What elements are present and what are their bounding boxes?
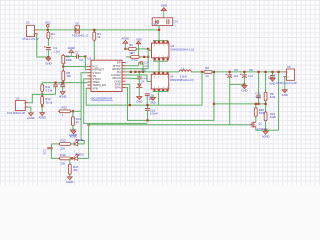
- LED LED2: [74, 153, 84, 161]
- connector U1 (thermistor): [7, 97, 28, 115]
- ground AGND below R17: [66, 176, 74, 184]
- svg-text:LED1: LED1: [77, 138, 84, 142]
- svg-text:36k: 36k: [67, 74, 72, 78]
- wire rail to C7: [272, 72, 274, 76]
- ground AGND below R12: [38, 112, 46, 120]
- wire C3 to PH rail: [141, 63, 144, 72]
- svg-text:AGND: AGND: [68, 46, 76, 50]
- junction SRP sense / R8 left: [201, 71, 203, 73]
- svg-text:U3: U3: [88, 56, 92, 60]
- junction R13 / R14: [72, 110, 74, 112]
- wire L1 to R8: [191, 71, 204, 73]
- wire rail to C6: [243, 72, 245, 75]
- junction gate column top: [147, 48, 149, 50]
- wire node to R10: [255, 104, 257, 108]
- wire C21 down: [258, 98, 260, 104]
- wire C12 to TS node rail: [55, 87, 57, 95]
- wire R3 top to C2: [63, 56, 76, 58]
- wire C6 down: [243, 77, 245, 85]
- svg-text:C6: C6: [249, 68, 253, 72]
- svg-text:100nF: 100nF: [150, 112, 158, 116]
- svg-text:R15: R15: [61, 139, 67, 143]
- wire R17 to AGND: [69, 174, 71, 176]
- wire R7 left: [126, 56, 129, 58]
- capacitor C5: [225, 68, 238, 77]
- ground AGND top middle: [122, 36, 130, 49]
- wire battery positive rail: [212, 71, 283, 73]
- wire input rail left segment: [38, 29, 75, 31]
- wire VREF to R11: [41, 83, 43, 85]
- diode D5 with capacitor C14 snubber: [152, 18, 178, 26]
- svg-text:LED2: LED2: [77, 153, 84, 157]
- wire ground return long: [89, 84, 230, 124]
- svg-text:600k: 600k: [259, 111, 266, 115]
- svg-text:5.9k: 5.9k: [270, 95, 276, 99]
- junction C5 top: [229, 71, 231, 73]
- wire R5 to VREF net: [62, 81, 64, 83]
- wire LODRV to U6 gate: [126, 75, 152, 82]
- svg-text:30.1k: 30.1k: [45, 100, 52, 104]
- svg-text:1N48: 1N48: [142, 78, 148, 80]
- wire R9 to R19: [265, 101, 267, 112]
- wire Q1 source to PH rail: [158, 61, 160, 72]
- resistor R2: [47, 31, 55, 40]
- ground AGND bottom right: [262, 130, 270, 138]
- wire Q2 source rail: [153, 91, 169, 93]
- wire C5 down: [229, 77, 231, 85]
- ground AGND above LED1: [70, 128, 78, 138]
- capacitor C12: [53, 85, 58, 87]
- ground GND above snubber: [161, 4, 167, 18]
- connector U5 (battery): [276, 65, 297, 85]
- wire LED2 riser: [88, 123, 90, 158]
- wire VFB run: [86, 88, 130, 105]
- svg-text:499k: 499k: [66, 58, 73, 62]
- svg-text:U4: U4: [171, 44, 175, 48]
- ground GND below U5: [282, 89, 288, 97]
- wire SRN sense run: [126, 72, 214, 121]
- wire to R17: [69, 158, 71, 164]
- wire LED1 cathode: [78, 143, 85, 145]
- svg-text:20k: 20k: [61, 146, 66, 150]
- resistor R10: [254, 106, 265, 117]
- ground AGND below U1: [27, 112, 35, 120]
- junction C13 top: [62, 82, 64, 84]
- wire C16 bottom: [147, 110, 149, 120]
- resistor R5: [62, 70, 72, 83]
- resistor R17: [68, 163, 78, 176]
- svg-text:AGND: AGND: [27, 116, 35, 120]
- svg-text:XT30(2+2)-8.9-2P: XT30(2+2)-8.9-2P: [276, 81, 297, 85]
- wire input rail to Q1 drain: [80, 29, 160, 31]
- junction C1 / U2 ground node: [47, 56, 49, 58]
- wire VREF to C12: [55, 83, 57, 85]
- resistor R11: [41, 83, 53, 93]
- svg-text:AGND: AGND: [66, 180, 74, 184]
- svg-text:20k: 20k: [73, 168, 78, 172]
- svg-text:10uf: 10uf: [233, 75, 238, 78]
- wire VREF net horizontal: [42, 82, 87, 84]
- wire BTST to C3: [126, 63, 141, 66]
- junction C6 top: [243, 71, 245, 73]
- wire LED2 cathode: [78, 157, 89, 159]
- wire rail to C5: [229, 72, 231, 75]
- svg-text:DMN3008SHA-L1Q: DMN3008SHA-L1Q: [170, 78, 194, 82]
- svg-text:AGND: AGND: [122, 36, 130, 40]
- junction divider feed: [213, 103, 215, 105]
- ground GND below C1: [45, 57, 51, 65]
- wire PH rail to C15: [138, 72, 140, 77]
- wire gate stub U4: [148, 49, 151, 51]
- svg-text:R6: R6: [129, 43, 133, 47]
- svg-text:GND: GND: [150, 100, 156, 104]
- wire HIDRV pin run: [122, 68, 148, 70]
- resistor R16: [58, 153, 72, 165]
- diode D2 input blocking: [72, 22, 89, 37]
- svg-text:C5: C5: [234, 68, 238, 72]
- wire R6 to gate column: [136, 48, 148, 50]
- svg-text:1uf: 1uf: [79, 59, 83, 62]
- svg-text:VCC: VCC: [45, 21, 51, 25]
- junction TS node: [41, 93, 43, 95]
- svg-text:R7: R7: [131, 51, 135, 55]
- wire R3 to R5: [62, 64, 64, 71]
- resistor R6: [127, 43, 138, 55]
- svg-text:10: 10: [97, 35, 101, 39]
- svg-text:U2: U2: [26, 21, 30, 25]
- capacitor C7: [268, 75, 275, 79]
- svg-text:4.7uf: 4.7uf: [131, 58, 137, 62]
- junction R6 left: [124, 48, 126, 50]
- junction C21 bottom: [258, 103, 260, 105]
- ground GND top middle: [136, 37, 142, 55]
- wire U5 pin2 down: [283, 77, 284, 89]
- wire snubber to Q1 drain rail: [158, 26, 160, 41]
- junction R7 net: [143, 56, 145, 58]
- wire R4 to U3 top: [93, 40, 95, 60]
- resistor R12: [41, 95, 53, 106]
- capacitor C21: [255, 92, 261, 99]
- junction feedback node: [265, 103, 267, 105]
- wire C19 to sense rail: [146, 96, 148, 105]
- svg-text:AGND: AGND: [70, 134, 78, 138]
- wire bus to R15: [51, 143, 58, 145]
- wire TS node to C12 bottom: [42, 93, 55, 95]
- wire STAT2 run: [84, 79, 148, 124]
- ground GND below C5 C6: [241, 84, 247, 92]
- capacitor C6: [240, 68, 253, 77]
- wire U1 pin2 down: [28, 107, 31, 112]
- diode D4: [136, 78, 148, 87]
- resistor R14: [72, 115, 82, 127]
- junction input rail / VCC: [47, 29, 49, 31]
- capacitor C3 bootstrap: [140, 61, 148, 68]
- wire R14 to AGND: [72, 126, 74, 129]
- svg-text:5.23k: 5.23k: [45, 88, 52, 92]
- wire R10 to Q2: [255, 116, 257, 121]
- wire D4 to GND: [138, 87, 140, 95]
- svg-text:2m: 2m: [205, 74, 210, 78]
- resistor R13: [58, 106, 72, 118]
- wire AGND to R6: [125, 48, 128, 50]
- resistor R4: [93, 31, 101, 42]
- wire R2 to C1: [47, 38, 49, 46]
- LED LED1: [74, 138, 84, 146]
- junction R12 bottom: [41, 105, 43, 107]
- svg-text:10uf: 10uf: [248, 75, 253, 78]
- wire C13 down: [62, 87, 64, 91]
- svg-text:PH2.0MM-K-2P: PH2.0MM-K-2P: [7, 111, 25, 115]
- capacitor C15 bootstrap: [137, 68, 146, 79]
- junction R4 tap: [93, 29, 95, 31]
- junction C3 / PH rail: [142, 71, 144, 73]
- ground AGND below C13: [59, 91, 67, 99]
- wire U2 pin1 to GND node: [37, 34, 49, 57]
- svg-text:U6: U6: [170, 75, 174, 79]
- junction VFB / SRP: [129, 104, 131, 106]
- junction AGND tap: [265, 129, 267, 131]
- wire R13 to STAT riser: [72, 110, 81, 112]
- wire C1 to ground node: [47, 49, 49, 57]
- wire R7 to gate column: [141, 56, 149, 58]
- wire SRP sense run: [126, 72, 202, 105]
- ground GND below D4: [136, 95, 142, 103]
- inductor L1: [179, 67, 191, 79]
- wire Q2 source down: [255, 128, 257, 130]
- power flag VCC: [45, 21, 51, 30]
- resistor R19: [264, 111, 276, 123]
- junction C7 top: [271, 71, 273, 73]
- resistor R8 current sense: [203, 66, 214, 78]
- svg-text:U5: U5: [287, 65, 291, 69]
- svg-text:AGND: AGND: [59, 95, 67, 99]
- wire Q2 gate run: [230, 124, 250, 126]
- svg-text:100k: 100k: [270, 115, 277, 119]
- junction R17 tap: [71, 157, 73, 159]
- svg-text:C14: C14: [173, 20, 178, 23]
- svg-text:SRN: SRN: [115, 86, 121, 90]
- wire rail to C21: [258, 72, 260, 96]
- svg-text:C15: C15: [141, 68, 147, 72]
- svg-text:20k: 20k: [61, 162, 66, 166]
- resistor R7: [129, 51, 140, 62]
- junction VCC pin tap: [62, 65, 64, 67]
- capacitor C2: [75, 50, 83, 62]
- svg-text:BQ24650RVAR: BQ24650RVAR: [92, 97, 114, 101]
- svg-text:10p: 10p: [255, 95, 260, 99]
- wire U1 pin1 to TS node: [28, 94, 42, 102]
- junction VCC net label: [50, 147, 52, 149]
- junction R7 / gate: [147, 56, 149, 58]
- svg-text:GND: GND: [241, 89, 247, 93]
- wire R19 to bottom rail: [265, 121, 267, 131]
- capacitor C16: [145, 108, 158, 115]
- svg-text:GND: GND: [136, 100, 142, 104]
- svg-text:10uf: 10uf: [153, 24, 158, 26]
- resistor R9: [264, 91, 276, 103]
- ground AGND near C2: [68, 46, 76, 57]
- wire R11 to R12: [41, 91, 43, 96]
- resistor R3: [62, 54, 73, 65]
- svg-text:6.8uH: 6.8uH: [180, 74, 187, 78]
- wire VCC rail to R2: [47, 30, 49, 32]
- svg-text:R16: R16: [61, 153, 67, 157]
- wire REGN pin run: [126, 77, 140, 80]
- junction C16 top / SRP: [146, 104, 148, 106]
- wire VREF to C13: [62, 83, 64, 85]
- resistor R15: [58, 139, 72, 151]
- junction MPPSET: [84, 55, 86, 57]
- transistor U4 high-side MOSFET: [152, 41, 195, 61]
- capacitor C1: [44, 46, 60, 54]
- junction R10 top: [255, 103, 257, 105]
- junction C21 top: [258, 71, 260, 73]
- wire C16 top: [147, 105, 149, 108]
- wire mid horizontal net: [214, 103, 267, 105]
- capacitor C13: [58, 81, 65, 86]
- wire to MPPSET pin: [85, 57, 87, 70]
- wire bus vertical to R16: [51, 144, 58, 159]
- svg-text:AGND: AGND: [262, 134, 270, 138]
- wire STAT1 to LED1: [81, 73, 87, 144]
- svg-text:Q2: Q2: [258, 122, 262, 126]
- ground GND below C7: [270, 77, 276, 85]
- svg-text:AGND: AGND: [38, 116, 46, 120]
- ground AGND below R14: [69, 129, 77, 137]
- wire Q1 source rail: [153, 60, 168, 62]
- junction R9 top: [265, 71, 267, 73]
- svg-text:GND: GND: [161, 4, 167, 8]
- wire C15 to D4: [138, 79, 140, 84]
- junction C16 / SRN: [146, 119, 148, 121]
- svg-text:R13: R13: [62, 106, 68, 110]
- junction VREF net: [62, 82, 64, 84]
- transistor U6 low-side MOSFET: [151, 72, 193, 92]
- svg-text:GND: GND: [45, 61, 51, 65]
- wire C2 to MPPSET corner: [79, 56, 86, 58]
- wire source rail down: [158, 92, 160, 106]
- wire rail to R9: [265, 72, 267, 92]
- wire HIDRV gate column: [147, 49, 149, 69]
- IC U3 charge controller BQ24650RVAR: [88, 56, 126, 100]
- junction PH rail / C15: [138, 71, 140, 73]
- junction PH rail a: [130, 71, 132, 73]
- svg-text:C2: C2: [75, 50, 79, 54]
- wire right vertical return: [278, 72, 280, 130]
- wire to VCC pin: [63, 66, 87, 68]
- svg-text:R8: R8: [205, 66, 209, 70]
- svg-text:2.2uf: 2.2uf: [53, 49, 59, 53]
- junction STAT2 / LED2: [88, 124, 90, 126]
- junction right vertical: [278, 71, 280, 73]
- wire R15 to LED1: [70, 143, 74, 145]
- junction PH rail b: [134, 71, 136, 73]
- transistor Q2 AO3400A: [250, 121, 268, 131]
- svg-text:GND: GND: [136, 37, 142, 41]
- junction input rail / snubber: [158, 29, 160, 31]
- wire junction to R14: [72, 111, 74, 117]
- wire Q1 drain rail: [153, 40, 168, 42]
- wire C5 C6 ground rail: [230, 83, 245, 85]
- capacitor C19: [145, 94, 156, 101]
- svg-text:DMN3008SHA-L1Q: DMN3008SHA-L1Q: [171, 48, 195, 52]
- svg-text:PDS1040L-13: PDS1040L-13: [72, 34, 89, 38]
- wire bottom rail right block: [256, 129, 279, 131]
- junction C12 top: [54, 82, 56, 84]
- net label VCC: [42, 147, 50, 155]
- svg-text:VCC: VCC: [42, 149, 46, 155]
- junction C6 ground: [243, 83, 245, 85]
- svg-text:U1: U1: [16, 97, 20, 101]
- svg-text:VFB: VFB: [92, 86, 98, 90]
- wire R16 to LED2: [70, 157, 74, 159]
- svg-text:GND: GND: [282, 93, 288, 97]
- svg-text:GND: GND: [270, 82, 276, 86]
- wire R12 to AGND: [41, 104, 43, 111]
- ground GND beside C19: [150, 95, 156, 105]
- connector U2 (solar input): [22, 21, 39, 41]
- junction battery rail / divider feed: [213, 71, 215, 73]
- node PH rail: [126, 71, 180, 73]
